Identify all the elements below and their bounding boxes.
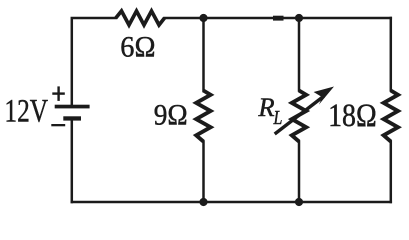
wire right branch lower (18-ohm bottom lead) [390, 142, 393, 203]
resistor R 9-ohm (vertical zigzag) [196, 91, 210, 142]
svg-text:9Ω: 9Ω [154, 99, 188, 132]
battery plus sign [52, 86, 65, 101]
wire 9-ohm branch top lead [202, 18, 205, 91]
arrow shaft of variable resistor RL [275, 96, 324, 134]
junction dot top node at 9-ohm branch [199, 14, 207, 22]
wire top-left from battery to 6-ohm resistor [72, 18, 116, 105]
resistor R 18-ohm (vertical zigzag) [384, 91, 398, 142]
wire bottom [72, 201, 391, 204]
resistor RL (vertical zigzag, variable) [292, 91, 306, 142]
junction dot bottom node at RL branch [295, 198, 303, 206]
junction dot bottom node at 9-ohm branch [199, 198, 207, 206]
junction dot top node at RL branch [295, 14, 303, 22]
svg-text:18Ω: 18Ω [328, 98, 377, 134]
wire top from 6-ohm resistor to top-right corner [165, 17, 391, 20]
battery minus sign [51, 124, 65, 126]
wire right branch upper (18-ohm top lead) [390, 18, 393, 91]
arrowhead of variable resistor RL [314, 87, 334, 105]
wire RL branch bottom lead [298, 142, 301, 203]
svg-text:R: R [257, 92, 274, 122]
minus polarity dash on top wire [273, 16, 284, 21]
wire RL branch top lead [298, 18, 301, 91]
wire left lower from battery minus plate to bottom-left corner [71, 121, 74, 203]
battery V1 positive plate (long) [55, 105, 90, 109]
battery V1 negative plate (short) [63, 116, 81, 120]
svg-text:12V: 12V [4, 93, 48, 129]
svg-text:L: L [273, 107, 283, 129]
svg-text:6Ω: 6Ω [120, 30, 155, 63]
wire 9-ohm branch bottom lead [202, 142, 205, 203]
resistor R 6-ohm (horizontal zigzag) [116, 11, 165, 25]
